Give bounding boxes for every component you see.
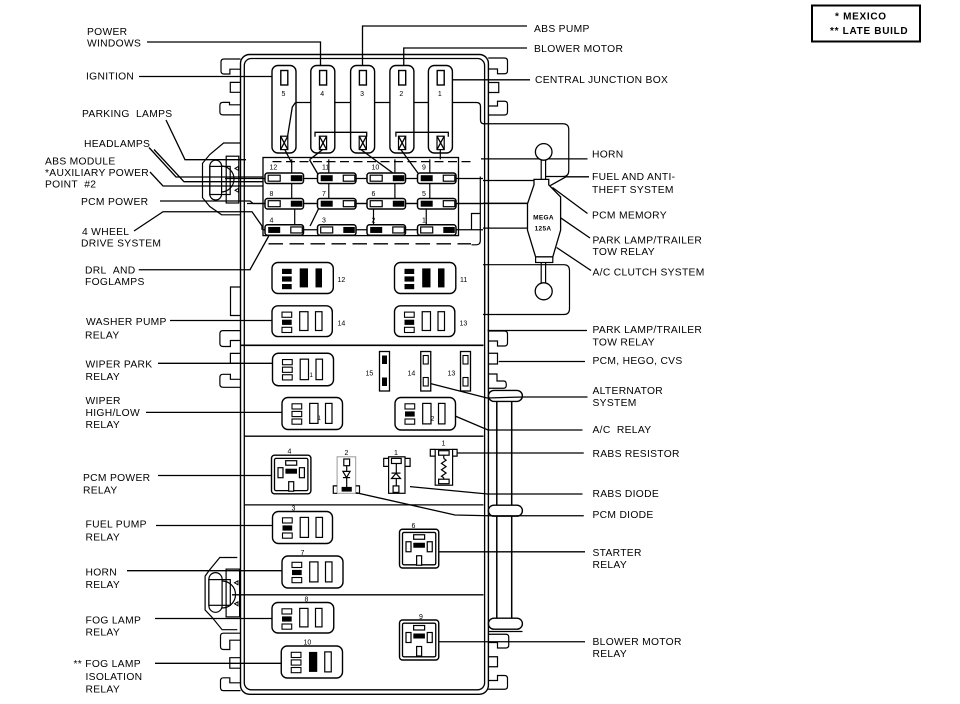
svg-text:HORN: HORN (86, 568, 118, 579)
left connector rect lower (209, 580, 230, 606)
svg-text:10: 10 (372, 165, 380, 172)
svg-text:MEGA: MEGA (533, 215, 554, 222)
svg-text:HORN: HORN (592, 150, 624, 161)
separator line bottom (232, 594, 484, 596)
svg-text:8: 8 (270, 191, 274, 198)
left tab stair F (221, 678, 241, 691)
right panel upper bracket (483, 124, 569, 177)
wire fuel anti-theft pointer (550, 177, 589, 186)
svg-text:2: 2 (431, 416, 435, 423)
relay 7 horn (282, 556, 343, 588)
wire pcm hego cvs pointer (499, 361, 585, 363)
svg-text:3: 3 (322, 217, 326, 224)
right tab small low (488, 657, 497, 667)
svg-text:5: 5 (282, 91, 286, 98)
svg-text:RELAY: RELAY (86, 533, 121, 544)
wire park lamp trailer 2 pointer (488, 330, 588, 332)
wire ac clutch pointer (557, 248, 591, 271)
left connector bulge lower (222, 581, 236, 608)
svg-text:PCM MEMORY: PCM MEMORY (592, 211, 667, 222)
svg-text:SYSTEM: SYSTEM (593, 398, 637, 409)
svg-text:10: 10 (304, 640, 312, 647)
right tab L low (488, 676, 507, 690)
wire junction col4 (429, 159, 431, 203)
left connector oval upper (210, 160, 222, 200)
svg-text:125A: 125A (535, 226, 552, 233)
left connector bulge upper (221, 166, 234, 192)
maxi fuse slot 3 (351, 66, 375, 154)
relay 11 drl foglamps (395, 263, 456, 294)
wire fuse5 element riser (288, 103, 296, 137)
wire wiper park pointer (158, 362, 272, 364)
maxi fuse slot 1 (428, 66, 452, 154)
left connector oval lower (209, 573, 222, 613)
svg-text:13: 13 (460, 321, 468, 328)
svg-text:** LATE BUILD: ** LATE BUILD (830, 26, 908, 37)
left tab stair D (220, 374, 241, 387)
svg-text:PARKING LAMPS: PARKING LAMPS (82, 109, 172, 120)
svg-text:STARTER: STARTER (593, 548, 642, 559)
svg-text:14: 14 (338, 321, 346, 328)
svg-text:RABS RESISTOR: RABS RESISTOR (593, 449, 680, 460)
svg-text:BLOWER MOTOR: BLOWER MOTOR (593, 637, 682, 648)
relay 12 drl foglamps (272, 263, 333, 294)
svg-text:9: 9 (419, 614, 423, 621)
right tab small A (488, 83, 499, 93)
mini fuse 6 row 2 (367, 199, 406, 210)
wire fog lamp isolation pointer (155, 662, 281, 664)
wire wiper highlow pointer (146, 411, 282, 413)
diode 1 pcm (384, 457, 410, 494)
right tab L mid (488, 374, 506, 388)
wire fuel pump relay pointer (156, 525, 272, 527)
wire ac relay pointer (455, 416, 583, 430)
svg-text:RELAY: RELAY (86, 580, 121, 591)
svg-text:WIPER: WIPER (86, 396, 121, 407)
legend box (812, 6, 920, 42)
svg-text:RELAY: RELAY (86, 685, 121, 696)
mini fuse 8 row 2 (265, 199, 304, 210)
right panel lower bracket (483, 265, 570, 315)
svg-text:HIGH/LOW: HIGH/LOW (86, 408, 140, 419)
svg-text:IGNITION: IGNITION (86, 72, 134, 83)
svg-text:11: 11 (460, 277, 467, 284)
horn stem upper (540, 160, 542, 179)
right tab small mid (488, 353, 497, 364)
svg-text:3: 3 (292, 506, 296, 513)
svg-text:*AUXILIARY POWER: *AUXILIARY POWER (45, 168, 149, 179)
svg-text:RELAY: RELAY (83, 486, 118, 497)
mini fuse 5 row 2 (418, 199, 457, 210)
wire blower motor (404, 48, 527, 66)
svg-text:POWER: POWER (87, 27, 127, 38)
mini fuse 2 row 3 (367, 225, 406, 236)
wire mega mid stub 2 (483, 227, 528, 229)
right rail cap mid (488, 505, 522, 516)
wire power windows (147, 42, 321, 66)
maxi fuse slot 4 (311, 66, 335, 154)
svg-text:7: 7 (322, 191, 326, 198)
wire mega bottom stub (484, 265, 486, 315)
svg-text:5: 5 (422, 191, 426, 198)
svg-text:4 WHEEL: 4 WHEEL (82, 227, 129, 238)
svg-text:ABS PUMP: ABS PUMP (534, 24, 590, 35)
wire horn relay pointer (127, 570, 282, 572)
relay 13 washer pump (395, 306, 455, 337)
vertical fuse 14 (421, 352, 431, 392)
svg-text:A/C CLUTCH SYSTEM: A/C CLUTCH SYSTEM (593, 268, 705, 279)
svg-text:3: 3 (360, 91, 364, 98)
svg-text:WASHER PUMP: WASHER PUMP (86, 317, 167, 328)
svg-text:1: 1 (442, 441, 446, 448)
maxi fuse slot 5 (272, 66, 296, 154)
wire 4 wheel drive pointer (134, 212, 262, 231)
wire fuse3 element to fuse10 (361, 150, 395, 175)
svg-text:2: 2 (372, 217, 376, 224)
left connector housing lower (226, 569, 240, 617)
svg-text:15: 15 (366, 371, 374, 378)
mega fuse bottom cap (536, 257, 553, 263)
svg-text:DRL AND: DRL AND (85, 266, 135, 277)
relay wiper high-low (282, 398, 343, 430)
svg-text:6: 6 (372, 191, 376, 198)
right rail cap bottom (488, 618, 522, 629)
svg-text:12: 12 (338, 277, 346, 284)
wire right bus jog (472, 214, 481, 230)
svg-text:A/C RELAY: A/C RELAY (593, 425, 652, 436)
mini fuse grid frame (263, 158, 459, 236)
mega fuse 125A body (528, 179, 561, 257)
svg-text:THEFT SYSTEM: THEFT SYSTEM (592, 185, 674, 196)
wire bus fuse4-fuse3 elements (315, 132, 367, 137)
wire pcm power relay pointer (158, 475, 272, 477)
wire mega top stub (483, 180, 534, 182)
svg-text:CENTRAL JUNCTION BOX: CENTRAL JUNCTION BOX (535, 75, 668, 86)
svg-text:2: 2 (345, 450, 349, 457)
mini fuse 9 row 1 (418, 173, 457, 184)
svg-text:7: 7 (301, 550, 305, 557)
relay 6 starter (400, 529, 439, 568)
left connector pin arrows lower (235, 581, 239, 606)
right tab stair mid (488, 331, 507, 346)
right tab curved low (488, 634, 509, 648)
separator line wiper section (241, 344, 484, 346)
diode 2 rabs (333, 457, 359, 494)
svg-text:1: 1 (394, 450, 398, 457)
wire bus fuse2-fuse1 elements (396, 132, 448, 137)
svg-text:RELAY: RELAY (86, 420, 121, 431)
wire fog lamp relay pointer (155, 618, 272, 620)
wire ignition (139, 76, 272, 78)
wire starter relay pointer (439, 551, 585, 553)
svg-text:13: 13 (448, 371, 456, 378)
wire fuse5b to fuse1 (425, 206, 427, 225)
relay 8 fog lamp (272, 603, 334, 634)
right rail cap top (488, 390, 522, 401)
relay 3 fuel pump (273, 512, 333, 544)
wire abs module pointer (154, 150, 263, 182)
relay wiper park (273, 353, 334, 386)
wire horn pointer (481, 158, 588, 160)
left tab stair E (221, 633, 241, 649)
wire fuse8 to fuse4 (294, 206, 296, 227)
maxi fuse slot 2 (390, 66, 414, 154)
svg-text:DRIVE SYSTEM: DRIVE SYSTEM (81, 239, 161, 250)
right tab stair A (488, 58, 507, 74)
svg-text:6: 6 (412, 523, 416, 530)
wire to fuse11 contact (309, 160, 320, 178)
relay 2 park lamp tow (395, 398, 456, 431)
wire right bus vertical (472, 177, 481, 245)
left tab small C (230, 353, 240, 363)
svg-text:RELAY: RELAY (593, 560, 628, 571)
mega bottom circle (535, 283, 552, 300)
svg-text:FOG LAMP: FOG LAMP (86, 616, 142, 627)
wire fuse5 element drop (285, 150, 292, 163)
svg-text:POINT #2: POINT #2 (45, 180, 96, 191)
wire mega mid stub (483, 202, 528, 204)
wire auxiliary power pointer (150, 172, 263, 186)
wire fuse7 to fuse3 (310, 206, 320, 226)
svg-text:TOW RELAY: TOW RELAY (593, 247, 655, 258)
wire washer pump pointer (170, 320, 272, 322)
left connector rect upper (210, 166, 230, 194)
svg-text:4: 4 (288, 449, 292, 456)
wire junction col1 (291, 159, 293, 203)
wire abs pump (363, 26, 528, 66)
svg-text:FUEL AND ANTI-: FUEL AND ANTI- (592, 172, 675, 183)
left connector octagon lower (205, 558, 237, 630)
mini fuse 7 row 2 (318, 199, 357, 210)
svg-text:PCM DIODE: PCM DIODE (593, 510, 654, 521)
svg-text:WINDOWS: WINDOWS (87, 39, 141, 50)
wire blower motor relay pointer (439, 641, 585, 643)
svg-text:8: 8 (305, 597, 309, 604)
left tab small A (230, 82, 240, 92)
svg-text:RABS DIODE: RABS DIODE (593, 489, 660, 500)
left tab small E (230, 658, 241, 669)
relay 14 washer pump (272, 306, 332, 337)
relay 9 blower motor (400, 620, 439, 660)
mini fuse 4 row 3 (265, 225, 304, 236)
horn contact circle (535, 144, 552, 161)
dashed line upper (269, 243, 472, 245)
wire pcm power (160, 201, 528, 204)
relay 10 fog lamp isolation (281, 646, 342, 678)
svg-text:ALTERNATOR: ALTERNATOR (593, 386, 664, 397)
wire pcm diode pointer (356, 493, 584, 516)
wire parking lamps pointer (166, 120, 246, 160)
wire pcm memory pointer (553, 188, 588, 214)
resistor 1 rabs (430, 449, 457, 485)
central junction box inner border (244, 59, 484, 690)
svg-text:FOGLAMPS: FOGLAMPS (85, 277, 145, 288)
svg-text:** FOG LAMP: ** FOG LAMP (74, 659, 141, 670)
svg-text:RELAY: RELAY (85, 331, 120, 342)
svg-text:HEADLAMPS: HEADLAMPS (84, 139, 150, 150)
svg-text:FUEL PUMP: FUEL PUMP (86, 520, 147, 531)
central junction box outer border (241, 55, 489, 695)
wire fuse row 1 (225, 178, 483, 180)
left tab stair A (221, 59, 241, 74)
dashed line grid top (273, 161, 474, 163)
svg-text:BLOWER MOTOR: BLOWER MOTOR (534, 44, 623, 55)
right rail lines lower (496, 516, 498, 618)
wire junction col2 (328, 159, 330, 203)
svg-text:11: 11 (322, 165, 329, 172)
wire fuse2 element to fuse9 (401, 150, 420, 176)
wire fuse row 2 (247, 203, 483, 205)
svg-text:4: 4 (320, 91, 324, 98)
mini fuse 11 row 1 (318, 173, 357, 184)
svg-text:PCM POWER: PCM POWER (81, 197, 148, 208)
wire park lamp trailer pointer (561, 218, 590, 238)
left tab tall mid (231, 287, 241, 316)
svg-text:PCM POWER: PCM POWER (83, 473, 150, 484)
mini fuse 3 row 3 (318, 225, 357, 236)
svg-text:PCM, HEGO, CVS: PCM, HEGO, CVS (593, 356, 683, 367)
wire rabs resistor pointer (457, 452, 584, 454)
svg-text:1: 1 (422, 217, 426, 224)
wire fuse row 3 (263, 229, 483, 231)
wire rabs diode pointer (410, 487, 583, 494)
svg-text:RELAY: RELAY (86, 372, 121, 383)
wire alternator pointer (429, 383, 587, 398)
wire fuse6 to fuse2 (373, 206, 375, 225)
separator line mid (244, 435, 483, 437)
svg-text:14: 14 (408, 371, 416, 378)
svg-text:WIPER PARK: WIPER PARK (86, 360, 153, 371)
mini fuse 12 row 1 (265, 173, 304, 184)
right tab stair B (488, 101, 507, 115)
svg-text:RELAY: RELAY (86, 628, 121, 639)
vertical fuse 13 (461, 352, 471, 392)
relay 4 pcm power (272, 455, 311, 494)
svg-text:1: 1 (438, 91, 442, 98)
svg-text:RELAY: RELAY (593, 649, 628, 660)
left connector octagon upper (203, 143, 241, 215)
svg-text:12: 12 (270, 165, 278, 172)
wire central junction box (453, 79, 531, 81)
wire headlamps pointer (149, 148, 263, 178)
right rail foot (489, 631, 523, 633)
mini fuse 1 row 3 (418, 225, 457, 236)
right rail lines upper (496, 401, 498, 505)
svg-text:9: 9 (422, 165, 426, 172)
wire drl foglamps pointer (139, 236, 269, 270)
left connector housing upper (226, 156, 239, 203)
wire fuse4 element drop (310, 150, 323, 160)
mini fuse 10 row 1 (367, 173, 406, 184)
svg-text:PARK LAMP/TRAILER: PARK LAMP/TRAILER (593, 325, 703, 336)
vertical fuse 15 (380, 352, 390, 392)
svg-text:2: 2 (399, 91, 403, 98)
left connector pin arrows upper (235, 166, 239, 192)
svg-text:ABS MODULE: ABS MODULE (45, 157, 116, 168)
left tab stair C (220, 331, 241, 347)
wire fuse1 element drop (439, 150, 441, 160)
left tab stair B (220, 102, 241, 115)
svg-text:* MEXICO: * MEXICO (835, 11, 887, 22)
svg-text:ISOLATION: ISOLATION (86, 672, 143, 683)
separator line lower (244, 504, 483, 506)
wire junction col3 (394, 159, 396, 203)
svg-text:4: 4 (270, 217, 274, 224)
svg-text:TOW RELAY: TOW RELAY (593, 338, 655, 349)
svg-text:PARK LAMP/TRAILER: PARK LAMP/TRAILER (593, 236, 703, 247)
mega stem lower (540, 263, 542, 284)
wire upper interior (296, 103, 485, 124)
